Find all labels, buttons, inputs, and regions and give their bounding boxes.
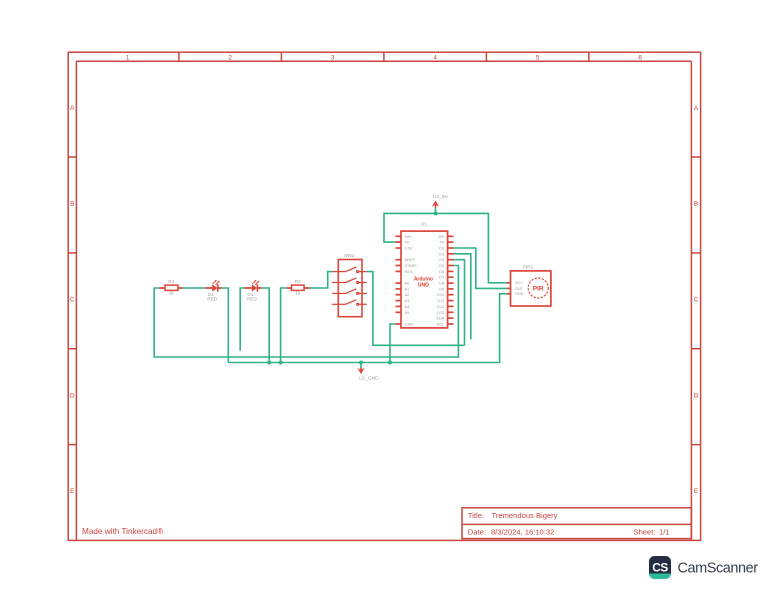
svg-text:RED: RED [247,297,257,302]
PIR1 pin labels [515,281,524,296]
column tick 1-2 [178,52,180,61]
power arrow U1_5V [432,194,449,208]
svg-text:D6: D6 [439,269,445,274]
inner border right line [690,61,692,540]
svg-text:4: 4 [433,54,437,61]
wire U1 pin D4 down to SW2 horizontal [454,260,465,346]
pir sensor PIR1 [507,265,551,306]
inner border top line [76,60,691,62]
row tick C-D left [68,348,76,350]
PIR1 circle [528,278,548,298]
wire GND bus2 horizontal and up to PIR GND pin [228,294,507,363]
svg-text:1: 1 [126,54,130,61]
junction dot U1_GND arrow on bus2 [359,361,363,365]
wire U1 pin D2 to PIR OUT [454,248,508,288]
row tick B-C right [691,252,700,254]
svg-text:D: D [694,392,699,399]
FRAME-START [68,52,700,540]
dip switch SW2 [332,253,367,317]
LED D2 [205,280,221,302]
svg-text:D8: D8 [439,281,445,286]
svg-text:D7: D7 [439,275,445,280]
svg-text:CS: CS [652,561,668,575]
svg-text:AREF: AREF [405,257,416,262]
svg-text:GND: GND [405,322,414,327]
svg-text:RED: RED [207,297,217,302]
svg-text:D11: D11 [437,298,445,303]
svg-text:D: D [70,392,75,399]
column tick 3-4 [383,52,385,61]
svg-text:D9: D9 [439,286,445,291]
svg-text:CamScanner: CamScanner [678,560,759,576]
SW2 pole 3 [332,289,367,295]
svg-text:C: C [70,297,75,304]
row tick C-D right [691,348,700,350]
junction dot U1 GND wire on bus2 [388,361,392,365]
row tick D-E left [68,444,76,446]
svg-text:SDA: SDA [436,316,445,321]
svg-text:D5: D5 [439,263,445,268]
U1 left pin labels [405,234,418,327]
svg-text:A: A [694,105,699,112]
wire stub of U1_GND arrow [360,363,362,369]
svg-text:3: 3 [331,54,335,61]
svg-text:1k: 1k [169,291,175,296]
svg-text:5V: 5V [405,240,410,245]
svg-text:A: A [70,105,75,112]
svg-text:B: B [70,201,74,208]
svg-text:B: B [694,201,698,208]
svg-text:A4: A4 [405,304,411,309]
svg-text:Sheet:: Sheet: [634,528,656,537]
svg-text:C: C [694,297,699,304]
svg-text:R2: R2 [295,279,301,284]
wire net D5: R3 left loop, bus1, up to U1 pin D5 [154,266,458,358]
U1 right pin labels [436,234,445,327]
svg-text:Tremendous Bigery: Tremendous Bigery [492,511,558,520]
svg-text:D10: D10 [437,292,445,297]
SW2 pole 1 [332,267,367,273]
title block divider [462,523,691,525]
svg-text:D4: D4 [439,257,445,262]
svg-text:D2: D2 [439,246,445,251]
svg-text:Date:: Date: [468,528,486,537]
svg-text:D12: D12 [437,304,445,309]
svg-text:U1_5V: U1_5V [433,194,448,200]
U1 right pins [448,236,454,324]
wire LED D1 anode dangling vertical [240,288,244,351]
svg-text:D3: D3 [439,251,445,256]
svg-text:SCL: SCL [437,322,446,327]
svg-text:A2: A2 [405,292,411,297]
SW2 pole 4 [332,300,367,306]
svg-text:UNO: UNO [418,282,429,288]
svg-text:A1: A1 [405,286,411,291]
svg-text:5: 5 [536,54,540,61]
svg-text:SW2: SW2 [344,253,355,259]
U1 left pins [396,236,402,324]
inner border left line [75,61,77,540]
column tick 5-6 [588,52,590,61]
svg-text:D13: D13 [437,310,445,315]
svg-text:U1: U1 [421,222,427,228]
svg-text:1k: 1k [295,291,301,296]
camscanner badge [649,556,671,574]
PIR1 pins [507,283,511,294]
svg-text:GND: GND [515,292,524,296]
wire U1 5V pin up over top to PIR VCC [384,213,507,282]
wire LED D2 cathode down to GND bus2 [222,288,229,363]
wire LED D1 cathode down to GND bus2 [262,288,270,363]
svg-text:RX: RX [439,234,445,239]
svg-text:1/1: 1/1 [659,528,670,537]
WIRES-START [154,207,507,368]
row tick D-E right [691,444,700,446]
row tick A-B left [68,156,76,158]
svg-text:PIR: PIR [533,285,544,292]
svg-text:PIR1: PIR1 [523,265,534,271]
svg-text:Made with Tinkercad®: Made with Tinkercad® [82,527,163,536]
CAMSCANNER-START [649,556,758,579]
wire U1 pin D3 dangling [454,254,471,340]
junction dot R2 left on bus2 [279,361,283,365]
svg-text:IOREF: IOREF [405,263,418,268]
svg-text:RES: RES [405,269,414,274]
wire stub of U1_5V power arrow [435,207,437,213]
svg-text:6: 6 [638,54,642,61]
wire R2 left down to GND bus2 [281,288,287,363]
LED D1 [245,280,262,302]
column tick 4-5 [485,52,487,61]
svg-text:R3: R3 [168,279,174,284]
outer border frame [68,52,700,540]
junction dot at U1_5V arrow [434,211,438,215]
column tick 2-3 [280,52,282,61]
svg-text:OUT: OUT [515,287,524,291]
row tick B-C left [68,252,76,254]
wire U1 GND pin down to GND bus2 [390,324,396,363]
junction dot D1 cathode on bus2 [267,361,271,365]
svg-text:VIN: VIN [405,234,412,239]
row tick A-B right [691,156,700,158]
svg-text:8/3/2024, 16:10:32: 8/3/2024, 16:10:32 [491,528,554,537]
svg-text:VCC: VCC [515,281,523,285]
resistor R3 [159,279,182,296]
power arrow U1_GND [357,368,379,382]
svg-text:E: E [694,488,698,495]
arduino U1 [396,222,454,328]
svg-text:E: E [70,488,74,495]
wire SW2 pin 1 right down and to D4 column [367,272,465,346]
svg-text:A5: A5 [405,310,411,315]
svg-text:2: 2 [228,54,232,61]
wire R2 right up to SW2 pin 1 left [310,272,333,288]
svg-text:A0: A0 [405,281,411,286]
svg-text:U1_GND: U1_GND [359,375,379,381]
title block box [462,508,691,539]
SW2 pole 2 [332,278,367,284]
resistor R2 [287,279,310,296]
svg-text:A3: A3 [405,298,411,303]
svg-text:Title:: Title: [468,511,484,520]
svg-text:3.3V: 3.3V [405,246,414,251]
wire R3 right to LED D2 anode [183,287,206,289]
svg-text:TX: TX [439,240,444,245]
